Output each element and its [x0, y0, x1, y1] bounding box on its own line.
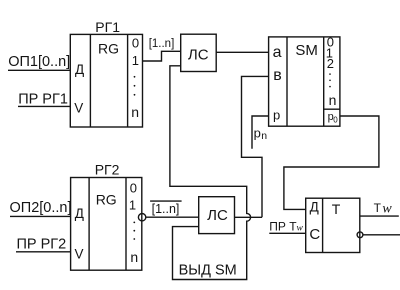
svg-text:ОП2[0..n]: ОП2[0..n]: [10, 200, 72, 216]
svg-text:Д: Д: [75, 62, 84, 77]
svg-text:Д: Д: [310, 199, 319, 214]
svg-text:n: n: [329, 92, 337, 108]
svg-text:[1..n]: [1..n]: [149, 38, 175, 50]
svg-text:0: 0: [132, 35, 139, 50]
svg-text:С: С: [309, 226, 320, 243]
svg-text:в: в: [273, 67, 282, 84]
wire SM input p from pn: [252, 116, 269, 149]
wire SM input v from LS2 output: [242, 76, 269, 217]
svg-text:w: w: [297, 224, 304, 234]
svg-text:p: p: [273, 108, 280, 123]
svg-text:РГ2: РГ2: [95, 162, 120, 178]
svg-text:1: 1: [132, 53, 139, 68]
svg-text:а: а: [273, 44, 282, 61]
RG2 output dots: [133, 222, 135, 240]
wire LS1 output to SM input a: [216, 51, 268, 53]
svg-text:0: 0: [130, 181, 137, 196]
svg-text:Т: Т: [332, 201, 341, 217]
wire LS2 output to corner node x262: [235, 216, 263, 218]
wire OP2 to D input of RG2: [10, 215, 71, 217]
wire PR RG2 to V input of RG2: [16, 251, 71, 253]
wire T inverse output: [363, 234, 400, 236]
svg-text:V: V: [75, 247, 84, 262]
svg-text:n: n: [261, 130, 267, 142]
svg-text:ПР РГ1: ПР РГ1: [18, 91, 68, 107]
svg-text:[1..n]: [1..n]: [152, 202, 180, 216]
svg-text:ВЫД SM: ВЫД SM: [179, 263, 237, 279]
svg-text:p: p: [254, 125, 261, 140]
trigger T box: [306, 198, 360, 252]
svg-text:ПР РГ2: ПР РГ2: [17, 236, 67, 252]
adder SM box: [269, 37, 340, 126]
wire PR Tw to C input of T: [269, 232, 305, 234]
logic circuit LS1 box: [181, 34, 217, 71]
wire T direct output Tw: [360, 215, 399, 217]
svg-text:w: w: [382, 201, 392, 216]
wire RG1 output 1 to LS1 upper input: [143, 51, 181, 61]
svg-text:2: 2: [327, 56, 334, 71]
svg-text:ЛС: ЛС: [207, 207, 228, 224]
wire OP1 to D input of RG1: [8, 69, 70, 71]
overline of [1..n] bus label: [150, 200, 182, 202]
wire LS1 lower input loop around VYD SM box with hop: [170, 66, 251, 280]
register RG2 box: [71, 178, 142, 271]
wire RG2 inverted output to LS2 upper input: [146, 216, 199, 218]
svg-text:n: n: [131, 104, 139, 120]
register RG1 box: [70, 34, 142, 127]
svg-text:V: V: [74, 101, 83, 116]
SM output dots: [329, 73, 331, 87]
logic circuit LS2 box: [199, 197, 235, 234]
svg-text:ПР Т: ПР Т: [269, 219, 297, 233]
svg-text:RG: RG: [96, 191, 117, 207]
svg-text:Т: Т: [374, 201, 382, 215]
svg-text:0: 0: [333, 116, 338, 125]
svg-text:SM: SM: [295, 42, 318, 59]
svg-text:ЛС: ЛС: [188, 46, 209, 63]
svg-text:РГ1: РГ1: [95, 19, 120, 35]
inversion bubble on RG2 output: [138, 214, 145, 221]
RG1 output dots: [134, 76, 136, 96]
svg-text:RG: RG: [98, 41, 119, 57]
svg-text:ОП1[0..n]: ОП1[0..n]: [8, 54, 70, 70]
svg-text:n: n: [130, 249, 138, 265]
wire SM output p0 to D input of trigger T: [284, 116, 379, 209]
inversion bubble on T inverse output: [357, 232, 363, 238]
svg-text:1: 1: [129, 198, 136, 213]
svg-text:Д: Д: [75, 206, 84, 221]
wire PR RG1 to V input of RG1: [18, 105, 70, 107]
